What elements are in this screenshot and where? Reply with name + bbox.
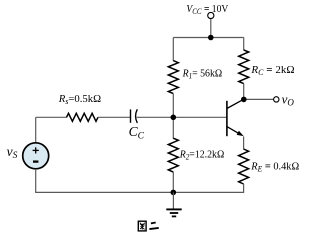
node vO terminal <box>274 97 279 102</box>
svg-text:RC = 2kΩ: RC = 2kΩ <box>250 64 294 77</box>
wire: right drop to RC <box>243 38 245 51</box>
label VCC = 10V <box>186 4 228 17</box>
wire: Vcc stub <box>210 19 212 38</box>
label Rs value <box>58 93 101 106</box>
voltage source vS <box>23 143 49 169</box>
wire: bottom rail <box>36 191 244 193</box>
resistor RE <box>239 149 249 184</box>
wire: base wire <box>137 116 227 118</box>
junction: base node <box>171 115 177 121</box>
wire: R1 to base node <box>172 94 174 118</box>
wire: source bottom lead <box>35 169 37 193</box>
svg-text:vO: vO <box>282 92 295 108</box>
svg-text:CC: CC <box>129 124 145 142</box>
wire: top rail <box>173 37 243 39</box>
wire: source top lead <box>36 116 67 118</box>
junction: ground node <box>171 190 177 196</box>
resistor RC <box>239 50 249 84</box>
ground <box>166 192 181 216</box>
wire: emitter to RE <box>243 136 245 149</box>
label RE value <box>250 160 299 173</box>
wire: left drop to R1 <box>172 38 174 62</box>
resistor R1 <box>168 61 178 94</box>
wire: left drop to source <box>35 117 37 142</box>
label R2 value <box>179 149 225 162</box>
resistor Rs <box>67 113 99 121</box>
transistor Q1 <box>227 100 244 136</box>
wire: collector to output terminal <box>244 98 274 100</box>
svg-text:R1= 56kΩ: R1= 56kΩ <box>182 68 223 81</box>
label vS <box>7 144 18 161</box>
svg-text:vS: vS <box>7 144 18 161</box>
capacitor CC <box>131 109 138 123</box>
wire: Rs to capacitor <box>98 116 130 118</box>
wire: R2 drop <box>172 117 174 138</box>
junction: Vcc node <box>208 35 214 41</box>
resistor R2 <box>168 138 178 172</box>
label RC value <box>250 64 294 77</box>
svg-text:Rs=0.5kΩ: Rs=0.5kΩ <box>58 93 101 106</box>
svg-text:RE = 0.4kΩ: RE = 0.4kΩ <box>250 160 299 173</box>
label figure caption 图二 <box>138 221 158 231</box>
svg-text:VCC = 10V: VCC = 10V <box>186 4 228 17</box>
node VCC terminal <box>208 12 214 18</box>
label CC <box>129 124 145 142</box>
junction: collector node <box>241 97 247 103</box>
wire: RC to collector node <box>243 84 245 100</box>
wire: R2 to ground rail <box>172 172 174 192</box>
label vO <box>282 92 295 108</box>
svg-text:R2=12.2kΩ: R2=12.2kΩ <box>179 149 225 162</box>
wire: RE to bottom rail <box>243 184 245 193</box>
label R1 value <box>182 68 223 81</box>
